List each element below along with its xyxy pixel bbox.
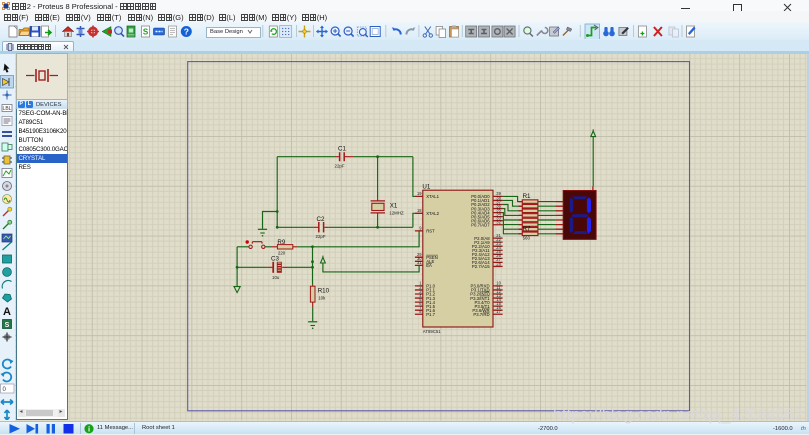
svg-text:U1: U1 [422,184,430,191]
rotate/mirror cluster [0,349,15,420]
svg-text:?: ? [184,27,189,37]
bottom bar [0,421,809,435]
node junction RST / R10 branch [311,245,314,248]
svg-text:A: A [3,306,11,318]
device list [16,109,68,420]
power terminal arrow (EA line) [321,257,326,263]
ground (below R10) [308,322,317,329]
wire display common to power [592,137,594,186]
svg-text:RST: RST [426,229,435,234]
node junction C3 line / R10 vertical [311,266,314,269]
gear target [87,26,99,38]
packaging [550,27,560,36]
svg-text:C2: C2 [317,216,325,223]
component mode (selected) [1,76,14,89]
info [84,424,93,433]
text script [2,117,12,126]
wire C3 right to R10 vertical [288,266,313,268]
redo [406,27,416,34]
wire XTAL2 drop-up jog [413,213,415,227]
svg-text:12MHZ: 12MHZ [389,211,404,216]
remove sheet [654,27,662,36]
svg-text:220: 220 [278,251,286,256]
junction dot [3,91,12,100]
2d text [3,306,11,318]
svg-text:560: 560 [523,236,531,241]
svg-text:10k: 10k [318,296,326,301]
resistor R10 [310,285,329,308]
selection arrow [4,64,10,73]
wire crystal bottom drop [377,215,379,228]
svg-text:19: 19 [417,191,422,196]
component bridge [77,26,85,37]
generator [3,195,12,204]
resistor R9 [272,239,298,256]
capacitor C2 [314,216,329,239]
wire C3 left [237,266,267,268]
wire RST net (R9 to MCU RST) [297,231,423,247]
ground arrow terminal (below button) [234,287,240,293]
find component [524,27,533,37]
svg-text:C1: C1 [338,146,346,153]
wire button left stub [237,246,249,248]
$ doc [142,26,150,37]
copy [436,27,446,38]
svg-text:P3.7/RD: P3.7/RD [473,312,489,317]
wire resistor pack outputs to display segment pins [538,202,556,234]
crystal X1 [371,199,404,216]
7-segment display (7SEG-COM-AN-BL) body [563,191,596,240]
display common anode stub [592,186,594,190]
ground (crystal circuit) [258,229,267,236]
help [181,26,192,37]
svg-text:R9: R9 [277,239,285,246]
cut [423,27,432,38]
node junction on R10 vertical [311,260,314,263]
node junction C1 wire / crystal drop [376,155,379,158]
watermark [553,406,808,425]
binoculars [603,27,615,36]
svg-text:22pF: 22pF [316,234,326,239]
step [27,424,36,434]
play [10,424,21,434]
pushbutton (reset) [246,240,265,248]
paste [450,26,459,38]
resistor R1 network pack (R1-R8, 560) [522,193,538,241]
svg-text:R10: R10 [318,288,330,295]
h scrollbar [18,409,65,417]
green speaker arrows [102,27,112,37]
DEVICES header [16,99,68,111]
stop [64,424,74,434]
pressed wire autorouter [585,24,600,40]
current probe [3,220,12,229]
microcontroller U1 AT89C51 body [422,184,493,334]
zoom region [357,27,368,37]
menu bar [0,11,809,22]
svg-text:XTAL2: XTAL2 [426,211,439,216]
svg-text:28: 28 [496,261,501,266]
voltage probe [3,207,12,216]
refresh doc [269,26,277,37]
node junction left vertical / ground branch [276,210,279,213]
bus [2,132,12,136]
left icon strip [0,54,15,420]
zoom + [331,27,341,37]
svg-text:10u: 10u [272,275,280,280]
preview box [16,53,68,100]
2d symbol [3,320,12,329]
svg-text:R7: R7 [523,226,531,233]
graph [2,169,12,178]
magnifier doc [115,27,124,37]
edit pencil [687,26,696,37]
display segment pin stubs [555,202,563,234]
toolbar [0,22,809,41]
wire crystal top drop [377,157,379,199]
open [19,28,30,36]
wire label [2,105,12,113]
2d marker [3,333,12,342]
import [42,26,52,37]
grid icon [280,26,292,38]
device pins [2,156,12,164]
pan [316,26,328,38]
svg-text:R1: R1 [523,193,531,200]
U1 right pin stubs and numbers [493,196,503,314]
svg-text:X1: X1 [390,203,398,210]
svg-text:C3: C3 [271,255,279,262]
undo [391,27,401,34]
hammer [563,27,572,36]
2d circle [3,268,12,277]
svg-text:31: 31 [417,260,422,265]
wrench [537,28,548,36]
block copy/move/rotate/delete [466,26,515,37]
svg-text:22pF: 22pF [335,164,345,169]
svg-text:i: i [88,424,90,433]
instrument [2,234,12,242]
green book chip [127,26,135,37]
svg-text:P2.7/A15: P2.7/A15 [472,264,490,269]
resistor pack left leads [519,202,523,234]
wire R10 vertical (RST junction down to R10) [312,247,314,285]
new sheet [638,26,646,37]
2d arc [2,280,11,288]
device selector column [16,53,68,420]
display segments showing digit [570,196,591,234]
capacitor C1 [335,146,354,169]
wire EA net (power arrow to MCU EA pin) [323,263,423,272]
wire left vertical (C1 to XTAL2 line) [276,157,278,228]
wire C1 left to left vertical [277,156,335,158]
origin [299,26,311,38]
Base Design combo [206,27,261,38]
svg-text:AT89C51: AT89C51 [423,329,441,334]
svg-text:XTAL1: XTAL1 [426,194,439,199]
svg-text:P1.7: P1.7 [426,312,435,317]
wire button right stub to R9 [265,246,272,248]
svg-text:S: S [5,322,10,329]
goto sheet [669,27,679,37]
wire P0 bus fan from U1 to resistor pack [503,196,523,233]
wire R10 to ground [312,307,314,321]
tab bar [0,40,809,51]
wire left vertical below button [236,247,238,286]
wire XTAL2 line (left vertical through C2 and crystal bottom to MCU) [277,226,314,228]
home [63,27,74,37]
doc lines [169,26,177,37]
wire XTAL1 drop [413,157,415,197]
svg-text:18: 18 [417,208,422,213]
subcircuit [2,143,12,151]
separators [56,25,683,37]
2d box [3,255,12,263]
node junction left vertical / C2 line [276,226,279,229]
node junction crystal drop / XTAL2 line [376,226,379,229]
blue ticket [154,28,165,35]
2d closed path [3,294,12,302]
svg-text:17: 17 [496,309,501,314]
save [30,27,40,37]
right window edge strip [807,54,809,421]
svg-text:32: 32 [496,220,501,225]
property tool [619,27,629,36]
svg-text:EA: EA [426,263,432,268]
svg-text:P0.7/AD7: P0.7/AD7 [471,222,490,227]
2d line [3,242,12,250]
svg-text:S: S [143,28,149,37]
capacitor C3 (electrolytic) [267,255,287,280]
wire ground branch [263,212,278,229]
sheet border frame [188,62,690,411]
svg-text:LBL: LBL [3,106,12,112]
pause [47,424,50,434]
wire C1 right to XTAL1 drop [353,156,413,158]
node junction left vertical / C3 line [236,266,239,269]
title bar [0,0,809,11]
zoom sheet [370,27,380,37]
zoom - [344,27,354,37]
U1 left pin stubs and numbers [415,196,423,314]
power terminal arrow (display supply) [591,131,596,137]
tape [3,182,12,191]
new [9,26,17,37]
